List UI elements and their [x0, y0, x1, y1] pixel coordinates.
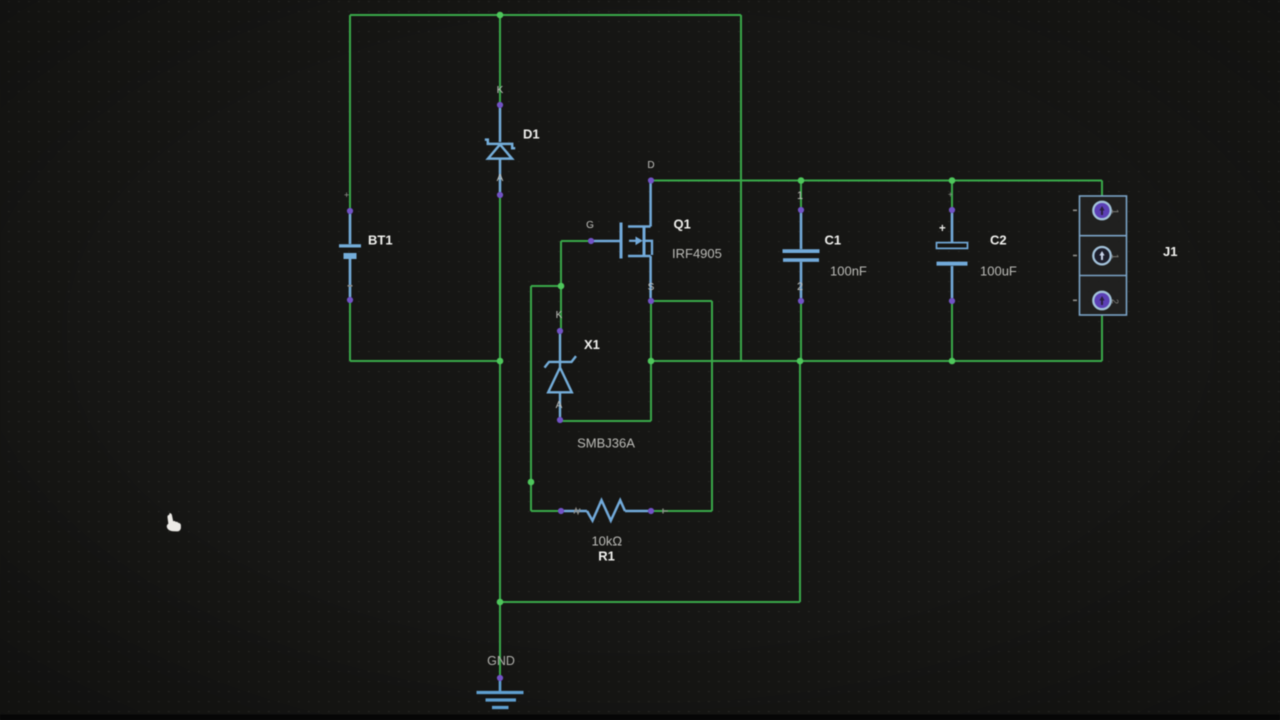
X1 pin K dot	[557, 328, 563, 334]
capacitor C2 polarized	[937, 213, 968, 298]
svg-text:G: G	[586, 220, 594, 231]
D1 pin A dot	[497, 192, 503, 198]
wire branch left from gate node	[531, 285, 561, 287]
wire R1 right horizontal	[651, 510, 712, 512]
J1 cell dividers	[1080, 236, 1127, 276]
D1 pin K dot	[497, 102, 503, 108]
R1 pin 2 tiny mark	[574, 509, 580, 514]
node top rail / D1	[497, 12, 504, 19]
wire BT1 plus lead up	[349, 15, 351, 211]
svg-text:A: A	[497, 173, 504, 184]
wire to R1 left	[531, 510, 561, 512]
J1 pin 3 mark	[1073, 300, 1077, 302]
Q1 pin S dot	[648, 298, 654, 304]
svg-text:D: D	[647, 160, 654, 171]
wire BT1 minus down to bottom rail	[349, 300, 351, 361]
wire C1 pin1 stub	[800, 181, 802, 211]
wire gate down to X1 cathode	[560, 241, 562, 331]
svg-text:100uF: 100uF	[980, 264, 1017, 279]
node GND line / bottom return	[497, 599, 504, 606]
mouse cursor hand	[167, 513, 181, 531]
svg-text:Q1: Q1	[674, 217, 691, 232]
node rail / source line	[648, 358, 655, 365]
J1 pad 3	[1093, 292, 1110, 309]
svg-text:1: 1	[797, 190, 803, 202]
node gate / X1 / R1 loop	[558, 283, 565, 290]
diode D1 (schottky)	[485, 108, 515, 192]
BT1 pin 1	[347, 208, 353, 214]
svg-text:GND: GND	[487, 654, 515, 668]
Q1 arrow head	[636, 237, 643, 246]
wire top rail horizontal	[350, 14, 741, 16]
node rail / GND line	[497, 358, 504, 365]
svg-text:C2: C2	[990, 233, 1007, 248]
J1 pad 1	[1093, 202, 1110, 219]
svg-text:D1: D1	[523, 127, 540, 142]
wire D1 anode down through rail to GND	[499, 195, 501, 678]
J1 pin 1 mark	[1073, 210, 1077, 212]
ground symbol GND	[477, 681, 524, 708]
wire C2 pin2 to rail	[951, 301, 953, 361]
wire bottom rail left segment	[350, 360, 500, 362]
capacitor C1	[783, 213, 820, 298]
C2 pin 2 dot	[949, 298, 955, 304]
svg-text:SMBJ36A: SMBJ36A	[577, 436, 635, 451]
wire X1 anode up to source node	[650, 301, 652, 421]
svg-text:10kΩ: 10kΩ	[591, 534, 622, 549]
wire gate horizontal	[561, 240, 591, 242]
svg-text:S: S	[648, 282, 655, 293]
X1 pin A dot	[557, 417, 563, 423]
svg-text:A: A	[556, 400, 563, 411]
svg-text:2: 2	[1110, 299, 1120, 304]
J1 pin 2 mark	[1073, 255, 1077, 257]
Q1 pin D dot	[648, 177, 654, 183]
wire to Q1 source	[651, 300, 712, 302]
resistor R1	[564, 500, 648, 520]
svg-text:R1: R1	[598, 549, 615, 564]
BT1 minus mark	[348, 285, 353, 287]
wire bottom rail right segment	[651, 360, 1102, 362]
wire drain rail horizontal	[651, 180, 1102, 182]
svg-text:IRF4905: IRF4905	[672, 246, 722, 261]
wire right drop from top rail to bottom rail	[740, 15, 742, 361]
battery BT1	[339, 214, 361, 297]
GND pin dot	[497, 675, 503, 681]
Q1 pin G dot	[588, 238, 594, 244]
wire bottom return up to rail	[799, 361, 801, 602]
svg-text:J1: J1	[1163, 244, 1177, 259]
J1 pad 2	[1093, 247, 1110, 264]
zener X1	[545, 334, 577, 417]
node rail / C1	[797, 358, 804, 365]
svg-text:100nF: 100nF	[830, 264, 867, 279]
svg-text:C1: C1	[825, 233, 842, 248]
wire left loop down	[530, 286, 532, 511]
wire R1 loop up	[711, 301, 713, 511]
node left loop mid	[528, 479, 535, 486]
R1 pin 2 dot	[558, 508, 564, 514]
BT1 pin 2	[347, 297, 353, 303]
svg-text:K: K	[497, 85, 504, 96]
node drain rail / C1	[798, 177, 805, 184]
wire X1 anode horizontal	[560, 420, 651, 422]
wire J1 bottom to rail	[1101, 315, 1103, 361]
svg-text:X1: X1	[584, 337, 600, 352]
svg-text:2: 2	[797, 281, 803, 293]
wire D1 cathode up	[499, 15, 501, 105]
svg-text:+: +	[948, 190, 953, 199]
wire C2 pin1 stub	[951, 181, 953, 211]
transistor Q1 PMOS body	[593, 183, 652, 298]
svg-text:1: 1	[1110, 209, 1120, 214]
svg-text:+: +	[344, 190, 349, 200]
wire bottom return horizontal	[500, 601, 800, 603]
svg-text:1: 1	[1110, 254, 1120, 259]
node drain rail / C2	[949, 177, 956, 184]
svg-text:+: +	[939, 223, 946, 235]
svg-text:BT1: BT1	[368, 233, 393, 248]
svg-text:K: K	[556, 310, 563, 321]
wire drain rail to J1 top	[1101, 181, 1103, 197]
C1 pin 2 dot	[798, 298, 804, 304]
C2 pin 1 dot	[949, 207, 955, 213]
connector J1 box	[1080, 196, 1127, 315]
C1 pin 1 dot	[798, 207, 804, 213]
bottom letterbox	[0, 715, 1280, 720]
R1 pin 1 tiny mark	[663, 509, 668, 514]
R1 pin 1 dot	[648, 508, 654, 514]
node rail / C2	[949, 358, 956, 365]
wire C1 pin2 to rail	[800, 301, 802, 361]
